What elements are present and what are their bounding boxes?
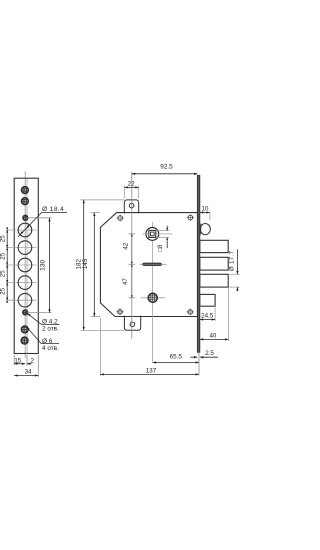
label O4.2 2 holes with leader xyxy=(26,312,59,332)
dim 182 extension top xyxy=(81,199,125,201)
screw cross hole bottom-right xyxy=(186,308,194,315)
dim 182 extension bottom xyxy=(81,329,125,331)
svg-text:92.5: 92.5 xyxy=(160,164,173,171)
deadbolt 3 xyxy=(200,274,228,287)
dim 40 xyxy=(200,288,229,341)
cylinder hole xyxy=(148,293,158,303)
dim text 25 b xyxy=(0,252,7,259)
svg-text:2 отв.: 2 отв. xyxy=(42,325,59,332)
svg-text:25: 25 xyxy=(0,235,7,242)
dim chain 25 line xyxy=(6,227,8,302)
svg-text:137: 137 xyxy=(146,368,157,375)
screw cross hole top-right xyxy=(187,214,195,221)
svg-text:Ø 17.7: Ø 17.7 xyxy=(229,251,236,272)
dim 22 xyxy=(124,181,138,199)
cylinder hole centerline horizontal xyxy=(141,297,166,299)
svg-text:22: 22 xyxy=(128,181,135,188)
hole O4.2 lower xyxy=(22,309,28,315)
svg-text:34: 34 xyxy=(24,369,32,376)
faceplate groove line xyxy=(26,178,28,353)
dim 47 slot to cylinder xyxy=(122,264,135,298)
big hole 2 xyxy=(18,241,32,255)
svg-text:4 отв.: 4 отв. xyxy=(42,345,59,352)
deadbolt 2 xyxy=(200,257,228,270)
faceplate centerline xyxy=(24,171,26,357)
svg-text:40: 40 xyxy=(209,333,216,340)
dim 145 extension top xyxy=(91,212,101,214)
spindle square 8mm outer xyxy=(149,230,156,237)
dim 24.5 xyxy=(200,308,215,322)
dim 145 extension bottom xyxy=(91,316,101,318)
svg-text:65.5: 65.5 xyxy=(170,354,183,361)
big hole 4 xyxy=(18,276,32,290)
spindle hole centerline horizontal xyxy=(143,233,173,235)
label O18.4 with leader xyxy=(18,206,67,237)
svg-text:25: 25 xyxy=(0,287,7,294)
dim 34 xyxy=(14,369,38,377)
extension line 2 right xyxy=(26,355,28,366)
svg-text:Ø 18.4: Ø 18.4 xyxy=(42,206,64,213)
faceplate plate outline xyxy=(14,178,38,353)
top tab hole xyxy=(129,203,134,208)
hole O4.2 upper xyxy=(22,215,28,221)
lock body outline with chamfered left corners xyxy=(100,213,197,317)
extension line 130 bottom xyxy=(28,312,52,314)
dim 92.5 xyxy=(132,164,198,175)
big hole 1 xyxy=(18,223,32,237)
big hole centerline 3 xyxy=(6,264,37,266)
dim O17.7 bolts xyxy=(229,249,240,291)
dim 182 xyxy=(75,200,84,330)
svg-text:10: 10 xyxy=(202,206,209,213)
bottom mounting tab xyxy=(124,316,140,331)
svg-text:25: 25 xyxy=(0,270,7,277)
dim 130 xyxy=(40,218,51,313)
big hole 5 xyxy=(18,293,32,307)
dim text 25 c xyxy=(0,270,7,277)
spindle hole vertical centerline xyxy=(151,222,153,363)
dim 15 xyxy=(14,357,25,365)
svg-text:2: 2 xyxy=(30,357,34,364)
svg-text:15: 15 xyxy=(14,357,21,364)
dim text 25 d xyxy=(0,287,7,294)
svg-text:42: 42 xyxy=(122,242,129,249)
handle spindle hole outer circle xyxy=(146,228,159,241)
spindle square inner xyxy=(150,232,154,236)
big hole 3 xyxy=(18,258,32,272)
auxiliary bolt xyxy=(200,294,215,306)
svg-text:24.5: 24.5 xyxy=(201,313,214,320)
extension line 15 left xyxy=(13,355,15,366)
screw cross hole top-left xyxy=(116,215,124,222)
svg-text:130: 130 xyxy=(40,259,47,270)
lock front plate bar xyxy=(197,175,199,352)
dim text 25 a xyxy=(0,235,7,242)
svg-text:2.5: 2.5 xyxy=(205,350,214,357)
big hole centerline 5 xyxy=(6,299,37,301)
top mounting tab xyxy=(124,200,138,214)
big hole centerline 2 xyxy=(6,247,37,249)
dim 42 spindle to slot xyxy=(122,234,135,264)
big hole centerline 1 xyxy=(6,229,37,231)
dim 2.5 plate thickness xyxy=(190,350,218,358)
keyhole slot centerline xyxy=(140,263,167,265)
dim 65.5 xyxy=(153,354,199,364)
dim 137 xyxy=(100,318,199,376)
svg-text:47: 47 xyxy=(122,278,129,285)
bottom tab hole xyxy=(130,322,135,327)
big hole centerline 4 xyxy=(6,282,37,284)
latch bolt xyxy=(200,224,210,235)
keyhole slot xyxy=(143,263,162,266)
svg-text:25: 25 xyxy=(0,252,7,259)
dim 145 xyxy=(82,213,95,317)
screw hole O6 top 2 xyxy=(21,197,29,205)
extension line 130 top xyxy=(28,217,52,219)
svg-text:145: 145 xyxy=(82,258,89,269)
deadbolt 1 xyxy=(200,240,228,252)
dim 10 latch xyxy=(200,206,210,220)
label O6 4 holes with leader xyxy=(26,326,59,352)
svg-text:□8: □8 xyxy=(157,244,164,252)
extension line 34 right xyxy=(37,355,39,377)
screw cross hole bottom-left xyxy=(116,308,124,315)
screw hole O6 top 1 xyxy=(21,186,29,194)
front plate extension line down xyxy=(198,352,200,375)
screw hole O6 bottom 2 xyxy=(21,337,29,345)
screw hole O6 bottom 1 xyxy=(21,325,29,333)
vertical centerline through tabs / dim line 42-47 xyxy=(131,172,133,339)
dim square 8 xyxy=(157,226,169,252)
dim 2 xyxy=(27,357,34,365)
